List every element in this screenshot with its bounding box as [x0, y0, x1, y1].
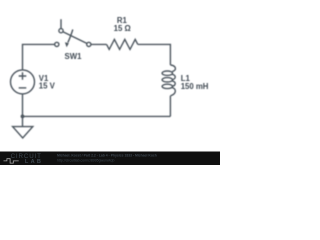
footer logo CircuitLab	[4, 153, 42, 165]
svg-text:http://circuitlab.com/c/8995gw: http://circuitlab.com/c/8995gwunwtqb	[57, 158, 114, 162]
ground	[13, 116, 33, 138]
inductor L1	[162, 65, 175, 96]
node junction dot	[21, 115, 25, 119]
svg-text:LAB: LAB	[25, 159, 41, 165]
wire: V1 top up and right to SW1 left terminal	[23, 44, 55, 70]
wire: bottom rail	[23, 115, 171, 117]
switch SW1	[55, 19, 91, 47]
resistor R1	[107, 39, 138, 49]
voltage source V1	[11, 70, 35, 94]
svg-text:Michael_Kocet / Part 2.2 - Lab: Michael_Kocet / Part 2.2 - Lab 4 - Physi…	[57, 153, 157, 157]
wire: R1 to top-right corner and down to L1	[138, 44, 171, 65]
wire: V1 bottom to ground junction	[22, 94, 24, 117]
wire: SW1 to R1	[91, 43, 107, 45]
footer bar	[0, 152, 220, 166]
svg-text:15 Ω: 15 Ω	[114, 24, 131, 33]
svg-text:15 V: 15 V	[39, 82, 56, 91]
svg-text:SW1: SW1	[65, 52, 83, 61]
svg-text:150 mH: 150 mH	[181, 82, 209, 91]
wire: L1 bottom to bottom-right corner	[169, 96, 171, 117]
